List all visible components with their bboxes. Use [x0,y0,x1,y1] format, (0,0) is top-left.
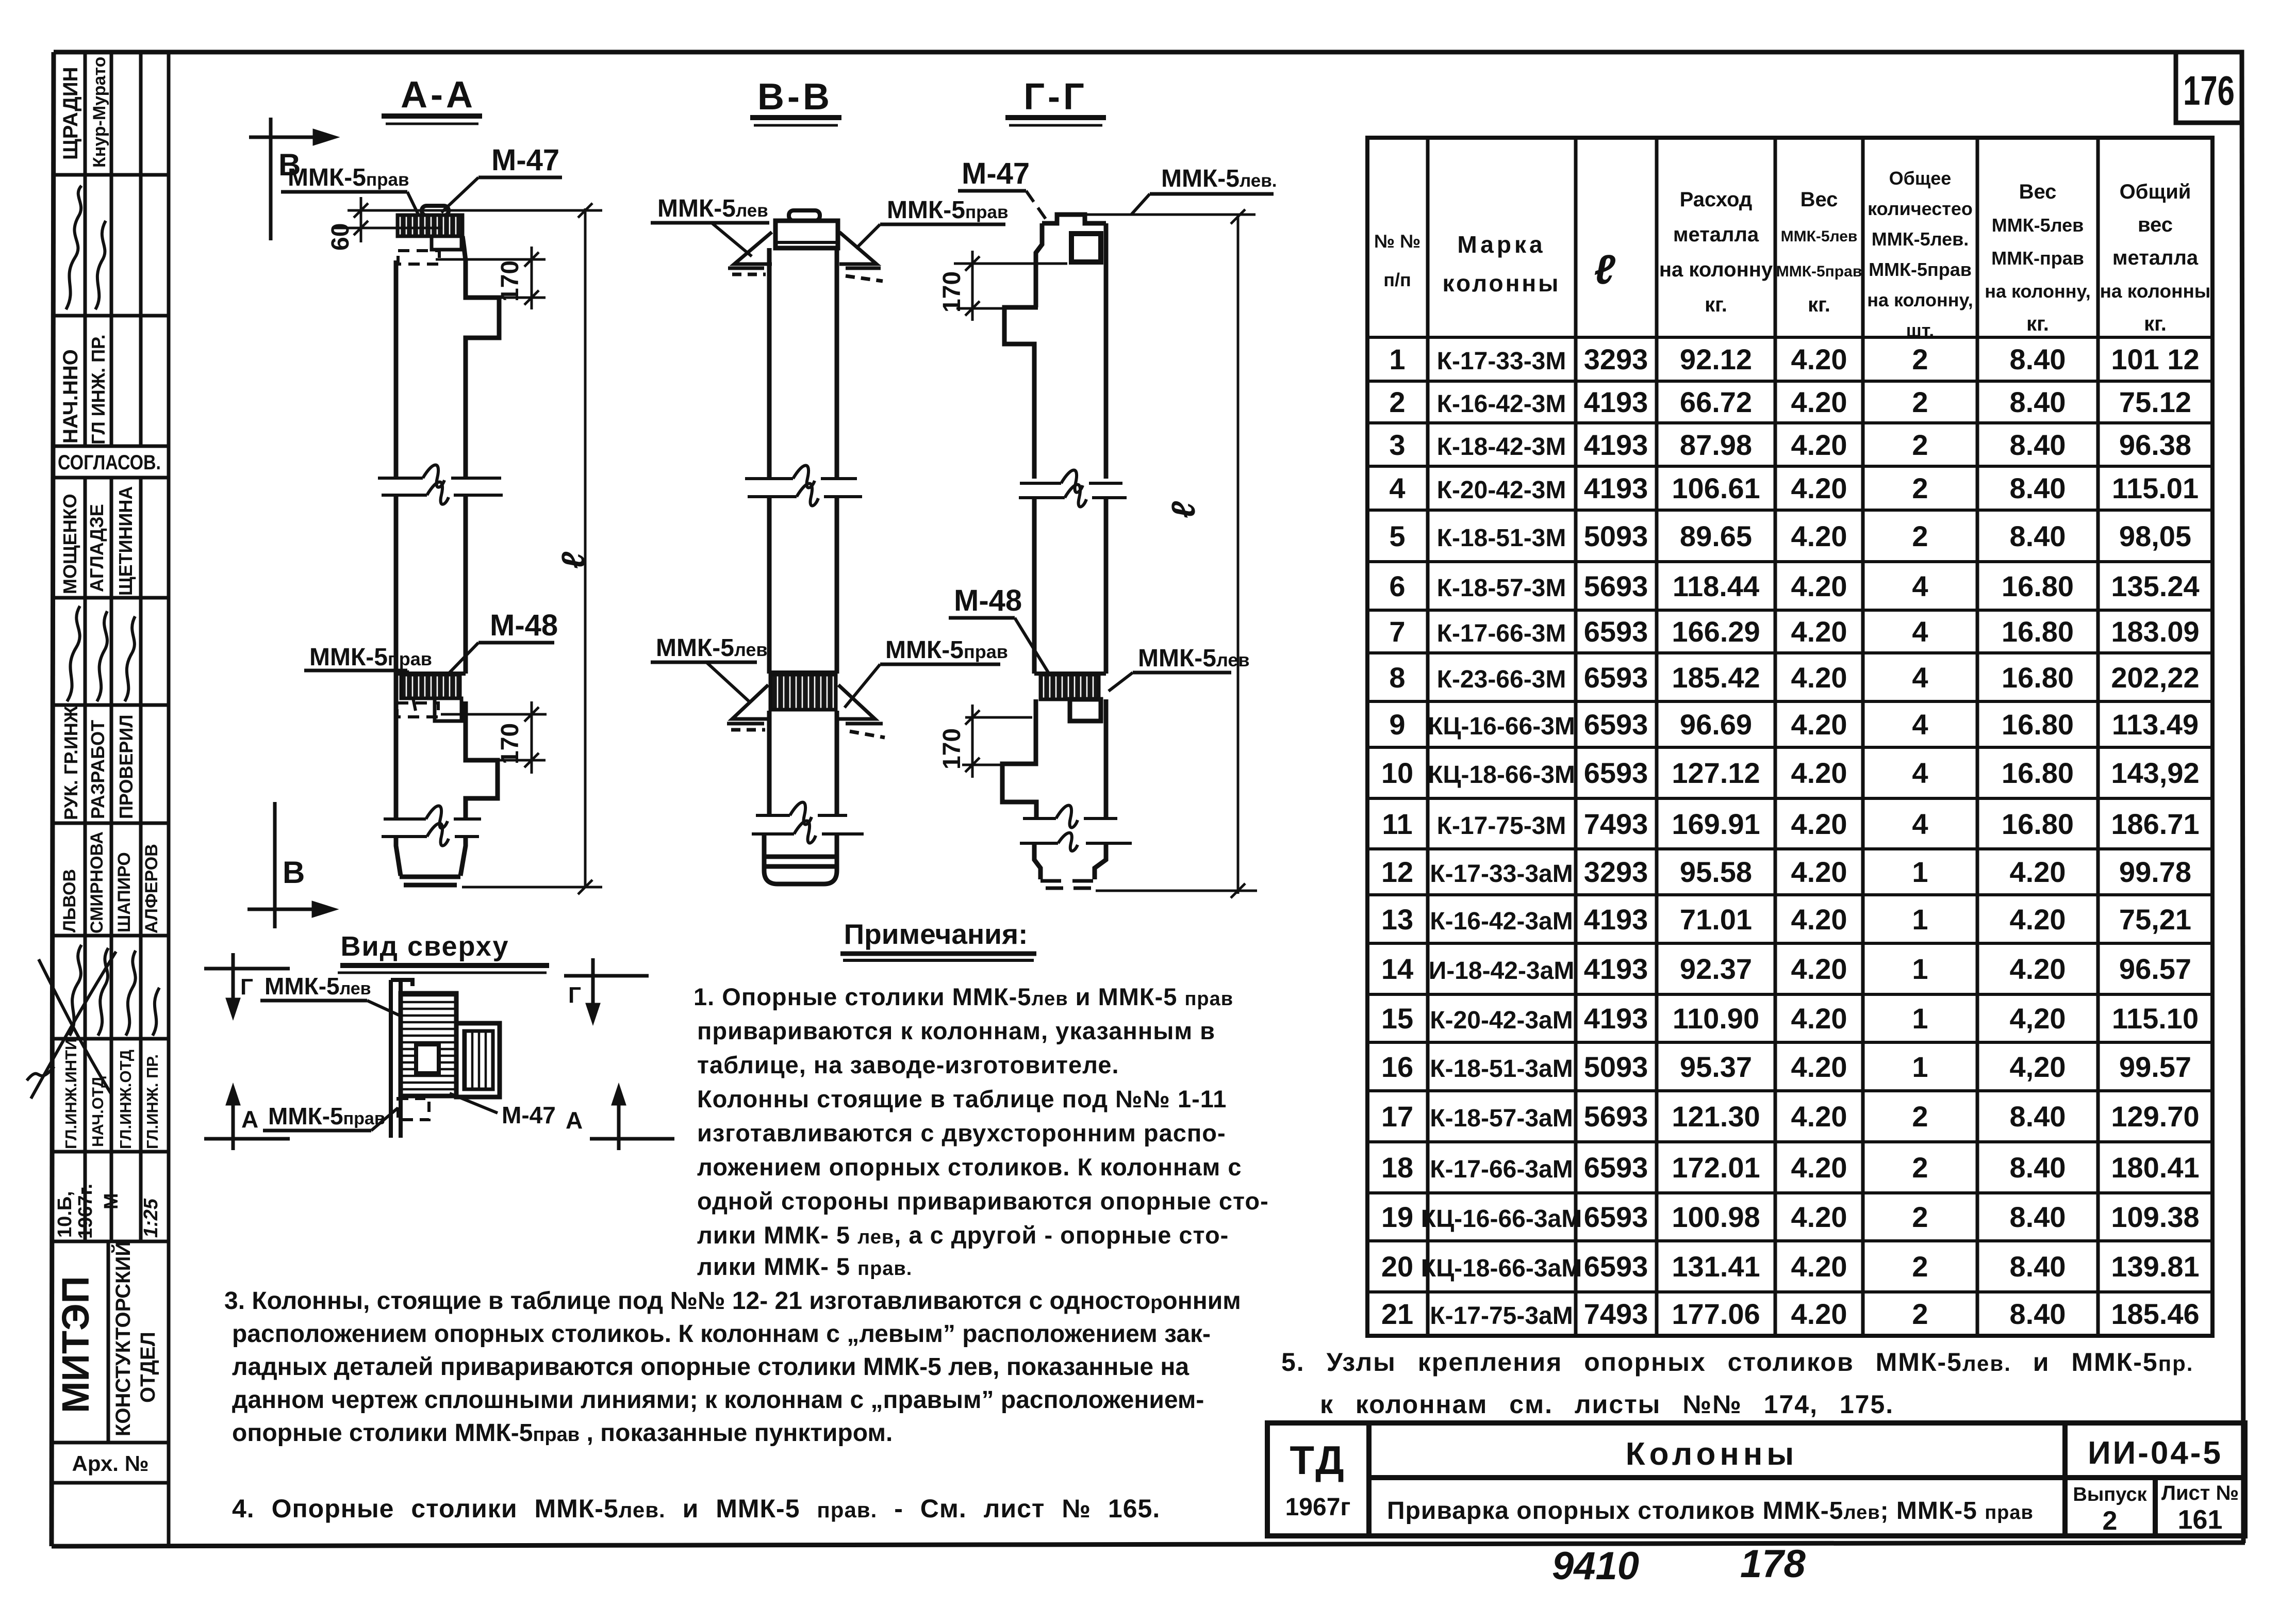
svg-text:Марка: Марка [1457,231,1545,258]
svg-text:ММК-5лев: ММК-5лев [1781,228,1858,245]
top support table MMK-5 (hatched) [398,215,462,236]
svg-text:К-18-57-3М: К-18-57-3М [1437,575,1566,602]
svg-text:100.98: 100.98 [1672,1201,1760,1233]
svg-text:8.40: 8.40 [2010,1201,2066,1233]
svg-text:2: 2 [1912,1201,1928,1233]
svg-text:Лист №: Лист № [2161,1482,2239,1504]
svg-text:Г-Г: Г-Г [1023,76,1087,118]
svg-text:75,21: 75,21 [2119,903,2191,936]
svg-text:на колонну,: на колонну, [1985,281,2091,302]
svg-text:89.65: 89.65 [1680,520,1752,552]
svg-text:4193: 4193 [1584,953,1648,985]
strip signatures row9 + cross-out scribble [27,945,159,1099]
strip signatures row6 [67,606,135,701]
svg-text:3293: 3293 [1584,856,1648,888]
svg-text:4193: 4193 [1584,429,1648,461]
svg-text:4.20: 4.20 [1791,808,1847,840]
bottom tip G-G (dashed bottom) [1034,843,1106,888]
svg-text:ММК-5лев.: ММК-5лев. [1872,228,1969,250]
svg-text:Колонны: Колонны [1626,1436,1798,1472]
table header [1374,168,2211,341]
svg-text:3: 3 [1389,429,1405,461]
svg-text:К-17-66-3аМ: К-17-66-3аМ [1430,1156,1573,1183]
svg-text:ладных деталей привариваются: ладных деталей привариваются опорные сто… [232,1353,1189,1381]
svg-text:4: 4 [1912,808,1928,840]
svg-text:К-18-51-3М: К-18-51-3М [1437,525,1566,552]
dim line l A-A [462,203,602,894]
svg-text:ГЛ ИНЖ. ПР.: ГЛ ИНЖ. ПР. [88,334,109,445]
svg-text:ПРОВЕРИЛ: ПРОВЕРИЛ [115,714,137,819]
svg-text:21: 21 [1381,1298,1413,1330]
svg-text:ММК-5прав: ММК-5прав [268,1103,385,1129]
strip row3 [59,334,109,445]
svg-text:ММК-5лев: ММК-5лев [1138,645,1250,672]
svg-text:ОТДЕЛ: ОТДЕЛ [137,1332,159,1403]
svg-text:ИИ-04-5: ИИ-04-5 [2088,1435,2223,1471]
svg-text:одной стороны приваpиваются оп: одной стороны приваpиваются опорные сто- [697,1187,1269,1215]
break upper G-G [1019,470,1127,507]
svg-text:шт.: шт. [1906,320,1934,341]
svg-text:4: 4 [1912,757,1928,789]
svg-text:143,92: 143,92 [2111,757,2199,789]
svg-text:4: 4 [1912,615,1928,648]
M-47 tab [422,206,449,216]
svg-text:Примечания:: Примечания: [844,918,1028,950]
title block frame [1267,1423,2245,1536]
svg-text:Арх. №: Арх. № [72,1451,149,1476]
svg-text:4. Опорные столики ММК-5лев: 4. Опорные столики ММК-5лев. и ММК-5 пра… [232,1494,1160,1523]
dim 170 upper G-G [954,251,1067,321]
section marker A right [590,1088,674,1150]
svg-text:87.98: 87.98 [1680,429,1752,461]
svg-text:МОЩЕНКО: МОЩЕНКО [59,494,80,594]
svg-text:6593: 6593 [1584,708,1648,741]
strip row8 [60,831,161,934]
svg-text:92.37: 92.37 [1680,953,1752,985]
svg-text:А: А [566,1107,583,1134]
svg-text:4.20: 4.20 [1791,386,1847,418]
svg-text:6593: 6593 [1584,1201,1648,1233]
svg-text:Вес: Вес [2019,181,2057,203]
left gusset [728,232,772,274]
svg-text:К-16-42-3М: К-16-42-3М [1437,390,1566,418]
svg-text:8.40: 8.40 [2010,1151,2066,1184]
dim line l G-G [1087,209,1257,898]
svg-text:КЦ-18-66-3М: КЦ-18-66-3М [1428,761,1575,789]
section marker Г right [564,958,649,1020]
svg-text:19: 19 [1381,1201,1413,1233]
svg-text:8.40: 8.40 [2010,472,2066,504]
svg-text:КЦ-16-66-3аМ: КЦ-16-66-3аМ [1421,1205,1582,1233]
svg-text:ММК-5прав: ММК-5прав [288,164,409,191]
svg-text:4.20: 4.20 [1791,708,1847,741]
svg-text:6593: 6593 [1584,1250,1648,1283]
svg-text:10.Б,: 10.Б, [54,1191,76,1238]
svg-text:115.01: 115.01 [2112,472,2199,504]
svg-text:178: 178 [1740,1542,1806,1586]
svg-text:2: 2 [1912,1151,1928,1184]
dim l extension top [348,209,602,212]
svg-text:6593: 6593 [1584,615,1648,648]
svg-text:опорные столики ММК-5прав ,: опорные столики ММК-5прав , показанные п… [232,1419,893,1447]
svg-text:115.10: 115.10 [2112,1002,2199,1035]
svg-text:1:25: 1:25 [140,1198,162,1238]
svg-text:180.41: 180.41 [2111,1151,2199,1184]
strip row10 [62,1039,161,1149]
svg-text:4.20: 4.20 [2010,903,2066,936]
svg-text:колонны: колонны [1443,270,1561,297]
svg-text:ММК-5прав: ММК-5прав [309,644,432,671]
svg-text:8: 8 [1389,661,1405,694]
svg-text:16: 16 [1381,1051,1413,1083]
break lower G-G [1020,806,1132,852]
svg-text:75.12: 75.12 [2119,386,2191,418]
svg-text:16.80: 16.80 [2002,808,2074,840]
svg-text:Расход: Расход [1680,188,1753,211]
lower support table (hatched) [396,672,466,676]
break lower B-B [752,803,864,843]
svg-text:1: 1 [1912,1002,1928,1035]
svg-text:4,20: 4,20 [2010,1051,2066,1083]
svg-text:ММК-5лев: ММК-5лев [1992,215,2084,236]
svg-text:МИТЭП: МИТЭП [54,1276,97,1413]
svg-text:М-47: М-47 [962,157,1030,190]
svg-text:2: 2 [1912,386,1928,418]
svg-text:15: 15 [1381,1002,1413,1035]
svg-text:139.81: 139.81 [2111,1250,2199,1283]
svg-text:2: 2 [1389,386,1405,418]
svg-text:лики ММК- 5 прав.: лики ММК- 5 прав. [697,1253,912,1280]
svg-text:КЦ-18-66-3аМ: КЦ-18-66-3аМ [1421,1255,1582,1282]
svg-text:2: 2 [1912,1250,1928,1283]
svg-text:96.57: 96.57 [2119,953,2191,985]
svg-text:11: 11 [1382,808,1412,840]
svg-text:186.71: 186.71 [2111,808,2199,840]
svg-text:99.78: 99.78 [2119,856,2191,888]
svg-text:М: М [101,1193,122,1209]
svg-text:8.40: 8.40 [2010,386,2066,418]
svg-text:вес: вес [2138,214,2173,236]
dim 170 lower [441,701,547,774]
svg-text:6593: 6593 [1584,1151,1648,1184]
column outline A-A [396,236,499,885]
svg-text:4.20: 4.20 [1791,757,1847,789]
svg-text:8.40: 8.40 [2010,1298,2066,1330]
dim 170 lower G-G [962,705,1032,778]
svg-text:7: 7 [1389,615,1405,648]
right block M-47 [456,1023,500,1097]
svg-text:7493: 7493 [1584,1298,1648,1330]
svg-text:Кнур-Мурато: Кнур-Мурато [90,57,109,168]
svg-text:113.49: 113.49 [2112,708,2199,741]
svg-text:К-16-42-3аМ: К-16-42-3аМ [1430,908,1573,935]
svg-text:135.24: 135.24 [2111,570,2199,602]
svg-text:4193: 4193 [1584,386,1648,418]
svg-text:6593: 6593 [1584,661,1648,694]
break lower A-A [382,806,481,846]
svg-text:4.20: 4.20 [1791,1250,1847,1283]
svg-text:4.20: 4.20 [1791,472,1847,504]
left edge and notch lower G-G [1002,699,1106,818]
table data rows [1381,343,2200,1330]
svg-text:А-А: А-А [401,74,476,116]
svg-text:В: В [283,855,305,890]
svg-text:1967г: 1967г [1285,1494,1351,1521]
svg-text:1: 1 [1912,903,1928,936]
svg-text:Вес: Вес [1801,188,1838,211]
svg-text:118.44: 118.44 [1673,570,1759,602]
note 3 [224,1287,1241,1447]
svg-text:14: 14 [1381,953,1413,985]
svg-text:ММК-5прав: ММК-5прав [1776,263,1862,280]
svg-text:16.80: 16.80 [2002,661,2074,694]
svg-text:ТД: ТД [1290,1437,1346,1483]
svg-text:ложением опорных столиков. К: ложением опорных столиков. К колоннам с [697,1153,1242,1181]
svg-text:кг.: кг. [1705,293,1727,316]
svg-text:4.20: 4.20 [1791,1151,1847,1184]
break upper A-A [378,465,503,504]
svg-text:9: 9 [1389,708,1405,741]
svg-text:данном чертеж сплошными лин: данном чертеж сплошными линиями; к колон… [232,1386,1204,1414]
svg-text:К-18-51-3аМ: К-18-51-3аМ [1430,1055,1573,1083]
svg-text:ММК-5лев.: ММК-5лев. [656,634,773,662]
svg-text:ГЛ.ИНЖ.ОТД: ГЛ.ИНЖ.ОТД [117,1050,135,1149]
svg-text:РАЗРАБОТ: РАЗРАБОТ [87,720,108,819]
svg-text:К-17-33-3аМ: К-17-33-3аМ [1430,860,1573,888]
svg-text:ШАПИРО: ШАПИРО [114,852,134,932]
svg-text:8.40: 8.40 [2010,429,2066,461]
svg-text:2: 2 [1912,343,1928,375]
svg-text:Г: Г [568,983,581,1008]
svg-text:4: 4 [1389,472,1405,504]
svg-text:Вид сверху: Вид сверху [340,931,509,962]
svg-text:4.20: 4.20 [1791,520,1847,552]
top tab [789,210,820,221]
svg-text:131.41: 131.41 [1672,1250,1760,1283]
svg-text:Колонны стоящие в таблице под: Колонны стоящие в таблице под №№ 1-11 [697,1085,1227,1112]
svg-text:РУК. ГР.ИНЖ: РУК. ГР.ИНЖ [60,706,81,820]
svg-text:183.09: 183.09 [2111,615,2199,648]
svg-text:60: 60 [327,223,354,251]
svg-text:на колонну,: на колонну, [1867,289,1973,310]
svg-text:121.30: 121.30 [1672,1100,1760,1133]
svg-text:2: 2 [1912,429,1928,461]
svg-text:Приварка опорных столиков М: Приварка опорных столиков ММК-5лев; ММК-… [1387,1497,2034,1525]
svg-text:3. Колонны, стоящие в таблице: 3. Колонны, стоящие в таблице под №№ 12-… [224,1287,1241,1315]
svg-text:170: 170 [497,260,524,302]
svg-text:№ №: № № [1374,231,1420,252]
strip row11 scale [54,1184,162,1239]
svg-text:изготавливаются с двухсторонни: изготавливаются с двухсторонним распо- [697,1119,1226,1147]
svg-text:4.20: 4.20 [1791,856,1847,888]
lower support block B-B [769,670,837,675]
svg-text:8.40: 8.40 [2010,1250,2066,1283]
svg-text:3293: 3293 [1584,343,1648,375]
svg-text:К-17-75-3аМ: К-17-75-3аМ [1430,1302,1573,1330]
svg-text:71.01: 71.01 [1680,903,1752,936]
svg-text:16.80: 16.80 [2002,708,2074,741]
main hatched block (MMK-5lev plan) [401,993,456,1096]
svg-text:1: 1 [1912,856,1928,888]
svg-text:66.72: 66.72 [1680,386,1752,418]
svg-text:4: 4 [1912,570,1928,602]
svg-text:1. Опорные столики ММК-5лев и: 1. Опорные столики ММК-5лев и ММК-5 прав [693,983,1233,1010]
svg-text:185.46: 185.46 [2111,1298,2199,1330]
svg-text:4.20: 4.20 [1791,570,1847,602]
svg-text:Выпуск: Выпуск [2073,1484,2147,1505]
svg-text:К-20-42-3М: К-20-42-3М [1437,477,1566,504]
svg-text:96.38: 96.38 [2119,429,2191,461]
svg-text:ММК-5прав: ММК-5прав [1869,259,1972,280]
svg-text:ЩРАДИН: ЩРАДИН [59,67,82,160]
svg-text:95.37: 95.37 [1680,1051,1752,1083]
svg-text:кг.: кг. [2144,313,2167,335]
note 1 [693,983,1269,1280]
svg-text:п/п: п/п [1383,269,1411,290]
svg-text:ГЛ.ИНЖ. ПР.: ГЛ.ИНЖ. ПР. [143,1054,161,1149]
svg-text:17: 17 [1381,1100,1413,1133]
svg-text:кг.: кг. [1808,293,1830,316]
svg-text:110.90: 110.90 [1673,1002,1759,1035]
svg-text:1967г.: 1967г. [75,1184,96,1239]
table grid [1367,138,2212,1336]
svg-text:127.12: 127.12 [1672,757,1760,789]
svg-text:К-18-57-3аМ: К-18-57-3аМ [1430,1105,1573,1132]
verticals [84,52,87,446]
svg-text:СОГЛАСОВ.: СОГЛАСОВ. [58,451,161,474]
svg-text:106.61: 106.61 [1672,472,1760,504]
svg-text:ЛЬВОВ: ЛЬВОВ [60,869,79,932]
svg-text:5093: 5093 [1584,520,1648,552]
dashed MMK-5prav below [398,1099,429,1120]
svg-text:172.01: 172.01 [1672,1151,1760,1184]
svg-text:К-23-66-3М: К-23-66-3М [1437,666,1566,693]
svg-text:176: 176 [2183,68,2235,113]
svg-text:Общее: Общее [1889,168,1952,189]
svg-text:В-В: В-В [757,76,833,118]
svg-text:95.58: 95.58 [1680,856,1752,888]
svg-text:16.80: 16.80 [2002,757,2074,789]
svg-text:НАЧ.ННО: НАЧ.ННО [59,349,82,444]
svg-text:4193: 4193 [1584,903,1648,936]
svg-text:5693: 5693 [1584,570,1648,602]
svg-text:16.80: 16.80 [2002,570,2074,602]
svg-text:18: 18 [1381,1151,1413,1184]
svg-text:ММК-5прав: ММК-5прав [885,636,1008,664]
svg-text:металла: металла [2112,247,2199,269]
svg-text:5: 5 [1389,520,1405,552]
svg-text:таблице, на заводе-изготовител: таблице, на заводе-изготовителе. [697,1051,1119,1078]
svg-text:4.20: 4.20 [1791,1100,1847,1133]
svg-text:20: 20 [1381,1250,1413,1283]
svg-text:М-48: М-48 [490,609,558,642]
svg-text:10: 10 [1381,757,1413,789]
svg-text:К-18-42-3М: К-18-42-3М [1437,433,1566,461]
svg-text:2: 2 [1912,1298,1928,1330]
svg-text:101 12: 101 12 [2111,343,2199,375]
svg-text:4.20: 4.20 [1791,661,1847,694]
svg-text:185.42: 185.42 [1672,661,1760,694]
svg-text:4.20: 4.20 [1791,1002,1847,1035]
svg-text:ММК-5лев: ММК-5лев [657,195,768,222]
svg-text:98,05: 98,05 [2119,520,2191,552]
svg-text:161: 161 [2178,1505,2223,1535]
strip signatures row2 [66,186,106,309]
hidden MMK-5 dashes [398,251,439,264]
svg-text:АЛФЕРОВ: АЛФЕРОВ [142,844,161,934]
svg-text:4.20: 4.20 [1791,953,1847,985]
svg-text:ММК-5прав: ММК-5прав [887,197,1008,224]
svg-text:2: 2 [1912,1100,1928,1133]
svg-text:7493: 7493 [1584,808,1648,840]
svg-text:количестео: количестео [1868,198,1973,219]
svg-text:2: 2 [1912,472,1928,504]
svg-text:6: 6 [1389,570,1405,602]
svg-text:170: 170 [938,271,966,313]
svg-text:202,22: 202,22 [2111,661,2199,694]
svg-text:4.20: 4.20 [1791,615,1847,648]
svg-text:4,20: 4,20 [2010,1002,2066,1035]
svg-text:НАЧ.ОТД: НАЧ.ОТД [89,1076,107,1147]
svg-text:13: 13 [1381,903,1413,936]
svg-text:привариваются к колоннам, указ: привариваются к колоннам, указанным в [697,1017,1215,1044]
section marker B bottom [247,802,333,928]
section marker A left [204,1088,290,1150]
svg-text:4.20: 4.20 [2010,953,2066,985]
svg-text:4.20: 4.20 [1791,343,1847,375]
svg-text:170: 170 [497,723,524,764]
svg-text:4: 4 [1912,708,1928,741]
strip row7 [60,706,137,820]
right gusset (dashed side) [839,232,883,281]
svg-text:96.69: 96.69 [1680,708,1752,741]
svg-text:8.40: 8.40 [2010,1100,2066,1133]
page number box [2176,52,2242,123]
lower support G-G [1034,672,1106,676]
svg-text:16.80: 16.80 [2002,615,2074,648]
svg-text:А: А [241,1106,258,1133]
section marker B top [249,118,334,240]
svg-text:109.38: 109.38 [2111,1201,2199,1233]
svg-text:на колонну: на колонну [1659,258,1773,281]
svg-text:И-18-42-3аМ: И-18-42-3аМ [1429,957,1575,985]
svg-text:4.20: 4.20 [1791,1201,1847,1233]
svg-text:расположением опорных столик: расположением опорных столикоь. К колонн… [232,1320,1211,1348]
svg-text:М-47: М-47 [502,1102,556,1128]
svg-text:1: 1 [1912,1051,1928,1083]
strip row5 [59,486,136,596]
svg-text:4.20: 4.20 [1791,429,1847,461]
svg-text:М-47: М-47 [491,143,559,177]
bottom shoe B-B [764,834,837,884]
svg-text:2: 2 [2103,1506,2118,1536]
svg-text:5. Узлы крепления опорных: 5. Узлы крепления опорных столиков ММК-5… [1281,1348,2193,1377]
dim 170 upper [436,247,546,309]
note 5 [1281,1348,2193,1419]
svg-text:СМИРНОВА: СМИРНОВА [87,831,107,934]
svg-text:К-17-33-3М: К-17-33-3М [1437,348,1566,375]
dim 60 [333,197,442,242]
svg-text:КЦ-16-66-3М: КЦ-16-66-3М [1428,713,1575,740]
svg-text:129.70: 129.70 [2111,1100,2199,1133]
svg-text:169.91: 169.91 [1672,808,1760,840]
strip row 1 names (rotated) [59,57,109,168]
svg-text:ММК-прав: ММК-прав [1991,248,2084,269]
handwritten numbers [1552,1542,1806,1588]
section marker Г left [204,953,290,1015]
svg-text:4.20: 4.20 [1791,1298,1847,1330]
svg-text:Общий: Общий [2120,181,2191,203]
